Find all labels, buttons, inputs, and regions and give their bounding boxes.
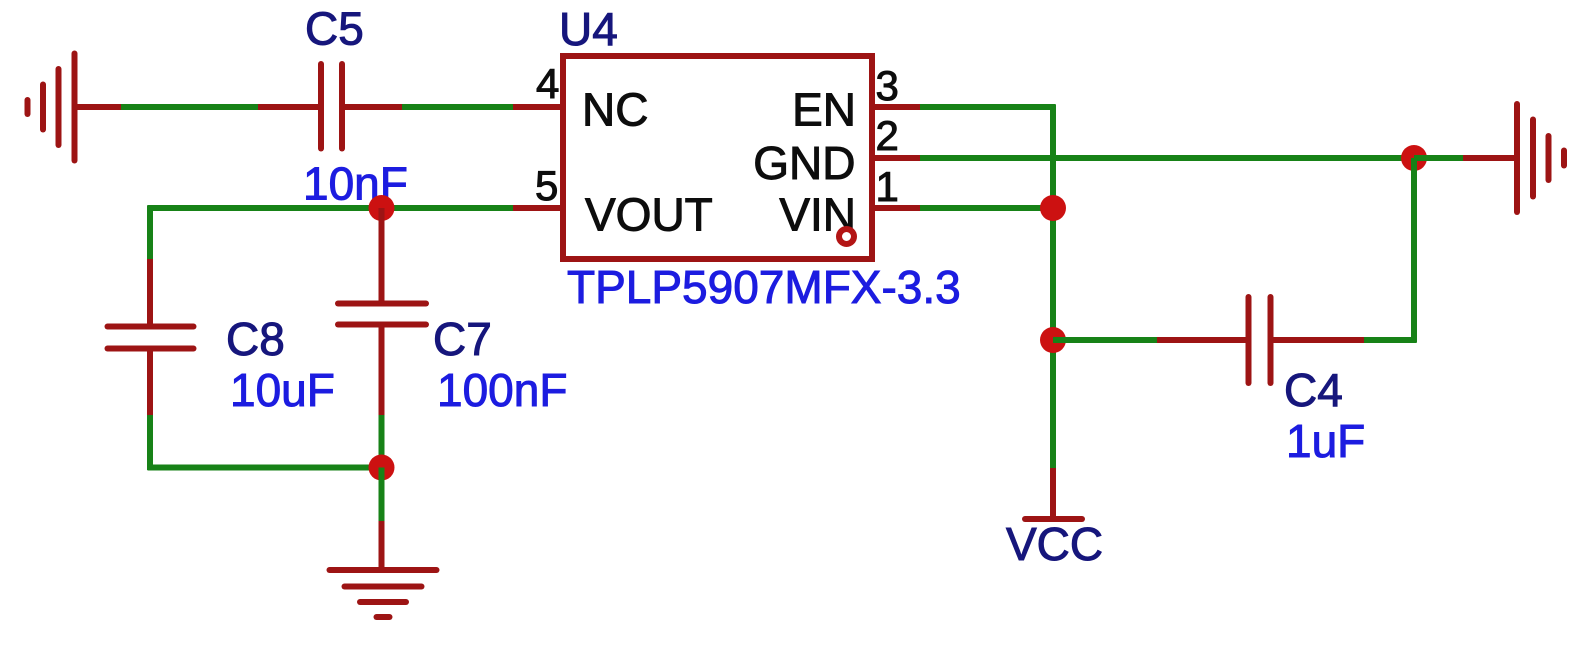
wire: VIN pin to vertical: [920, 205, 1053, 211]
op-amp U4 box: [563, 56, 872, 259]
inverted pin indicator circle on VIN: [839, 229, 854, 244]
svg-text:4: 4: [536, 60, 559, 107]
right ground stub: [1463, 155, 1517, 161]
wire: VOUT row (pin 5 to left corner): [148, 205, 514, 211]
ground GND2 (right, rotated): [1517, 104, 1564, 212]
svg-text:TPLP5907MFX-3.3: TPLP5907MFX-3.3: [567, 261, 961, 313]
svg-text:GND: GND: [753, 137, 855, 189]
wire: junction down to ground: [379, 468, 385, 522]
ground GND1 (left, rotated): [28, 54, 124, 161]
svg-text:VOUT: VOUT: [585, 189, 713, 241]
svg-text:1: 1: [876, 163, 899, 210]
svg-text:5: 5: [535, 162, 558, 209]
svg-text:U4: U4: [559, 3, 618, 55]
wire: C7 to bottom junction: [379, 415, 385, 468]
svg-text:NC: NC: [582, 84, 648, 136]
wire: junction to C4: [1053, 337, 1157, 343]
junction at VIN net: [1040, 195, 1066, 221]
capacitor C7: [338, 208, 426, 415]
wire: left ground to C5: [121, 104, 259, 110]
svg-text:VIN: VIN: [779, 189, 856, 241]
wire: GND net to right ground: [920, 155, 1414, 161]
junction at GND net: [1401, 145, 1427, 171]
pin 5 stub: [513, 205, 563, 211]
wire: C4 to right vertical: [1364, 337, 1417, 343]
svg-text:1uF: 1uF: [1286, 415, 1365, 467]
junction at bottom ground node: [369, 455, 395, 481]
bottom ground stub: [379, 521, 385, 570]
svg-text:C4: C4: [1284, 364, 1343, 416]
svg-text:C5: C5: [305, 3, 364, 55]
pin 1 stub: [872, 205, 920, 211]
svg-text:10uF: 10uF: [230, 364, 335, 416]
svg-text:2: 2: [876, 112, 899, 159]
pin 2 stub: [872, 155, 920, 161]
capacitor C4: [1157, 297, 1364, 383]
ground GND3 (bottom): [330, 570, 437, 617]
capacitor C5: [258, 64, 402, 149]
pin 3 stub: [872, 104, 920, 110]
svg-text:100nF: 100nF: [437, 364, 567, 416]
VCC power bar: [1025, 516, 1082, 522]
wire: bottom rail: [148, 465, 382, 471]
svg-text:3: 3: [876, 62, 899, 109]
wire: C8 to bottom rail: [147, 415, 153, 470]
junction at VCC/C4 node: [1040, 327, 1066, 353]
svg-text:C7: C7: [433, 313, 492, 365]
wire: right vertical up to GND junction: [1411, 158, 1417, 343]
capacitor C8: [108, 259, 194, 415]
svg-text:VCC: VCC: [1006, 518, 1103, 570]
wire: EN to vertical: [920, 104, 1056, 110]
wire: junction to right ground: [1414, 155, 1463, 161]
VCC power stub: [1050, 468, 1056, 519]
svg-text:EN: EN: [792, 84, 856, 136]
svg-text:C8: C8: [226, 313, 285, 365]
junction at VOUT net / C7: [369, 195, 395, 221]
pin 4 stub: [513, 104, 563, 110]
wire: left vertical down to C8: [147, 206, 153, 260]
wire: C5 to U4 pin 4: [402, 104, 513, 110]
wire: EN vertical down to VIN net: [1050, 105, 1056, 469]
